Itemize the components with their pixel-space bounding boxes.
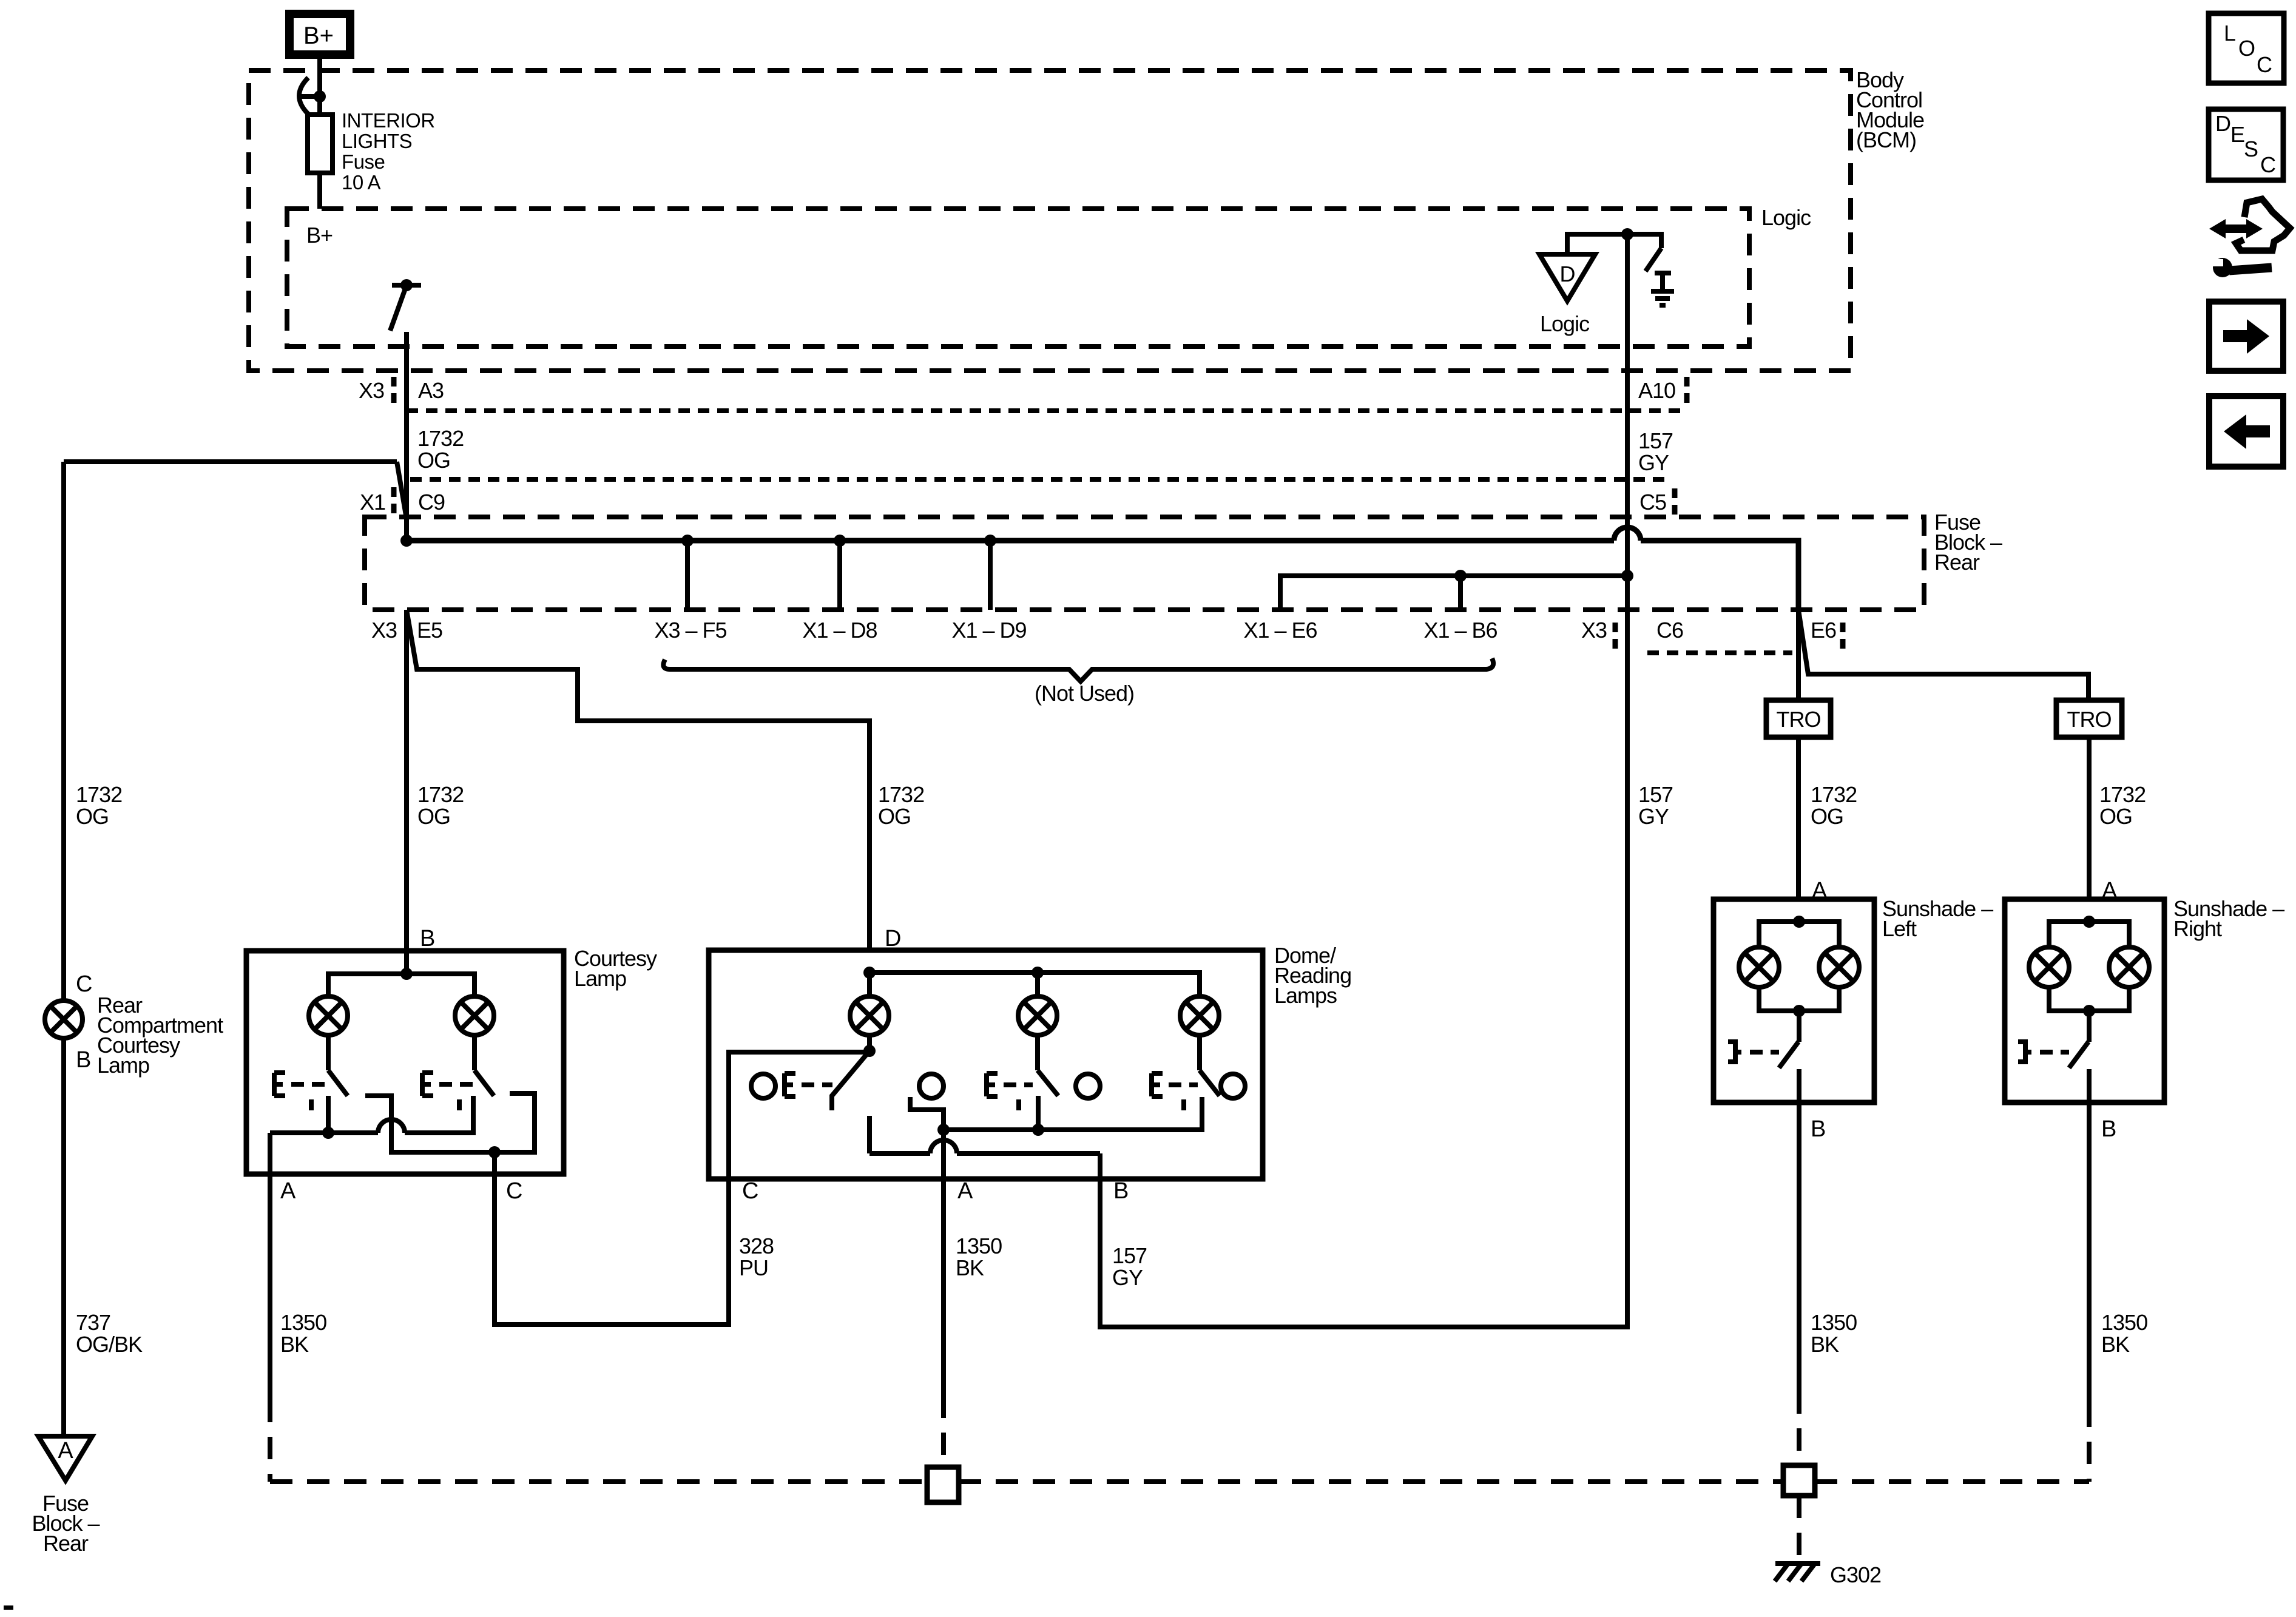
BCM outer dashed box: [249, 70, 1851, 371]
svg-text:C6: C6: [1656, 618, 1683, 643]
switch left: [326, 1035, 331, 1070]
svg-text:X3: X3: [371, 618, 397, 643]
connector labels below fuse block: [371, 618, 1843, 650]
dome lamp 2: [1018, 996, 1057, 1035]
connector X3 A3 labels: [359, 377, 444, 404]
svg-text:X1 – D8: X1 – D8: [802, 618, 877, 643]
wire branch E5 to dome lamps: [407, 610, 869, 951]
fuse clip holder: [299, 78, 326, 114]
icon DESC box: [2209, 109, 2283, 180]
dome pin A wire: [941, 1130, 946, 1396]
lamp left: [309, 996, 348, 1035]
wire label 157 GY: [1638, 428, 1673, 475]
svg-text:X1 – E6: X1 – E6: [1243, 618, 1317, 643]
wire label 1732 OG: [417, 426, 464, 473]
svg-text:B+: B+: [303, 22, 334, 49]
svg-text:TRO: TRO: [1777, 707, 1821, 732]
dome C rail: [867, 1035, 872, 1051]
svg-text:A: A: [58, 1438, 73, 1463]
icon component view with wrench: [2209, 199, 2290, 277]
svg-text:S: S: [2244, 137, 2258, 161]
svg-text:1732: 1732: [2099, 782, 2146, 807]
wire TRO right to sunshade: [2087, 737, 2092, 899]
BCM internal ground switch: [1627, 234, 1661, 271]
E symbol dome 3: [1152, 1073, 1198, 1110]
sunshade right lamp 1: [2029, 947, 2069, 987]
svg-text:TRO: TRO: [2067, 707, 2112, 732]
node logic junction: [1621, 228, 1633, 240]
dome switch 2: [1035, 1035, 1040, 1070]
E symbol left: [274, 1073, 326, 1110]
svg-text:Lamp: Lamp: [97, 1053, 149, 1078]
node bus junctions: [400, 535, 413, 547]
dashed stem to G302: [1797, 1496, 1801, 1561]
wire 737 OG/BK down: [61, 1038, 66, 1436]
icon arrow right box: [2209, 302, 2283, 371]
open circle 4: [1221, 1074, 1245, 1098]
svg-text:C: C: [2257, 52, 2272, 77]
COURTESY LAMP BOX: [246, 951, 564, 1174]
connector line below C6: [1647, 650, 1792, 655]
splice square left: [927, 1467, 959, 1502]
svg-text:1732: 1732: [417, 782, 464, 807]
connector C5 label: [1639, 488, 1675, 516]
svg-text:OG/BK: OG/BK: [76, 1332, 143, 1357]
sunshade left switch: [1797, 1011, 1801, 1042]
sunshade right lamp 2: [2109, 947, 2149, 987]
svg-text:OG: OG: [76, 804, 109, 829]
dome lamp 3: [1180, 996, 1219, 1035]
Fuse Block Rear label: [1934, 510, 2002, 575]
svg-text:1350: 1350: [1811, 1310, 1857, 1335]
svg-text:B: B: [1811, 1116, 1826, 1142]
svg-text:GY: GY: [1638, 450, 1669, 475]
sunshade left lamp bars: [1759, 922, 1839, 947]
svg-text:B: B: [1113, 1178, 1129, 1204]
svg-text:X3: X3: [1581, 618, 1607, 643]
svg-text:X1 – D9: X1 – D9: [951, 618, 1026, 643]
svg-text:OG: OG: [2099, 804, 2132, 829]
wire 1350 BK sunshade left: [1797, 1391, 1801, 1465]
dome switch 1 contact: [867, 1116, 872, 1153]
svg-text:C: C: [742, 1178, 758, 1204]
svg-text:BK: BK: [1811, 1332, 1839, 1357]
svg-text:PU: PU: [739, 1255, 768, 1280]
rear compartment courtesy lamp: [45, 1001, 83, 1038]
sunshade left actuator bracket: [1728, 1042, 1779, 1062]
wire to rear compartment lamp: [397, 462, 407, 519]
fuse F1 INTERIOR LIGHTS 10A: [308, 115, 333, 173]
fuse block rear triangle connector A: [38, 1436, 92, 1480]
node B junction: [400, 968, 413, 980]
svg-text:X3: X3: [359, 378, 384, 403]
dome switch 3: [1197, 1035, 1202, 1070]
wire B+ to fuse: [317, 59, 322, 115]
switch right: [472, 1035, 477, 1070]
connector line below A3/A10: [407, 408, 1685, 413]
svg-text:E5: E5: [417, 618, 442, 643]
svg-text:A: A: [2102, 878, 2118, 903]
TRO connector left: [1766, 700, 1831, 737]
svg-text:GY: GY: [1112, 1265, 1143, 1290]
svg-text:1732: 1732: [878, 782, 924, 807]
svg-text:E6: E6: [1811, 618, 1836, 643]
SUNSHADE RIGHT BOX: [2005, 899, 2164, 1102]
wire 328 PU courtesy C to dome C: [495, 1052, 869, 1325]
svg-text:B: B: [420, 926, 435, 951]
svg-text:X3 – F5: X3 – F5: [654, 618, 726, 643]
svg-text:C: C: [506, 1178, 522, 1204]
svg-text:Right: Right: [2173, 916, 2222, 941]
svg-text:10 A: 10 A: [342, 171, 381, 194]
svg-text:157: 157: [1638, 428, 1673, 453]
svg-text:157: 157: [1112, 1243, 1147, 1268]
wire 1350 BK sunshade right: [2087, 1405, 2092, 1482]
svg-text:D: D: [885, 926, 901, 951]
C contact path: [365, 1093, 535, 1152]
brace (Not Used): [663, 658, 1493, 706]
stub X1-D8: [837, 541, 842, 610]
svg-text:A3: A3: [418, 378, 444, 403]
dome switch 1 blade: [832, 1051, 869, 1110]
bus wire inside fuse block: [407, 538, 1614, 544]
open circle 3: [1076, 1074, 1100, 1098]
svg-text:(Not Used): (Not Used): [1035, 681, 1134, 706]
connector line above C9/C5: [410, 477, 1672, 482]
wire labels column: [76, 782, 122, 829]
svg-text:D: D: [1560, 262, 1575, 286]
top rail: [328, 974, 474, 997]
svg-text:Left: Left: [1882, 916, 1917, 941]
dome top rail: [863, 967, 876, 979]
svg-text:C5: C5: [1639, 490, 1666, 515]
svg-text:E: E: [2230, 122, 2244, 147]
BCM interior lamp driver switch: [390, 279, 421, 331]
svg-text:328: 328: [739, 1234, 774, 1258]
svg-text:A10: A10: [1638, 378, 1675, 403]
svg-text:B+: B+: [306, 223, 333, 248]
svg-text:L: L: [2224, 21, 2235, 46]
svg-text:C9: C9: [418, 490, 445, 515]
wire 1732 OG from BCM A3 to bus: [404, 332, 409, 541]
BCM label: [1856, 67, 1924, 152]
E symbol dome 1: [785, 1073, 832, 1096]
svg-text:X1 – B6: X1 – B6: [1423, 618, 1497, 643]
wire 1350 BK courtesy A to ground: [268, 1133, 272, 1400]
svg-text:C: C: [2260, 152, 2275, 177]
E symbol right: [422, 1073, 473, 1110]
svg-text:1350: 1350: [2101, 1310, 2147, 1335]
open circle 2: [919, 1074, 944, 1098]
ground symbol inside BCM: [1651, 273, 1674, 305]
svg-text:Lamps: Lamps: [1274, 983, 1337, 1008]
svg-text:1350: 1350: [956, 1234, 1002, 1258]
svg-text:OG: OG: [878, 804, 911, 829]
SUNSHADE LEFT BOX: [1714, 899, 1874, 1102]
sunshade left lamp 2: [1819, 947, 1859, 987]
wire TRO left to sunshade: [1796, 737, 1801, 899]
svg-text:Rear: Rear: [43, 1531, 89, 1556]
B+ terminal box: [289, 14, 350, 55]
open circle 1: [751, 1074, 775, 1098]
icon arrow left box: [2209, 396, 2283, 467]
wire 1732 OG E5 to courtesy lamp: [404, 610, 409, 974]
svg-text:A: A: [280, 1178, 296, 1204]
sunshade left lamp 1: [1739, 947, 1779, 987]
svg-text:BK: BK: [956, 1255, 984, 1280]
dome A rail: [944, 1097, 1202, 1130]
svg-text:GY: GY: [1638, 804, 1669, 829]
wire fuse to logic box: [317, 173, 322, 209]
svg-text:B: B: [76, 1047, 91, 1073]
ground distribution dashed wire: [270, 1479, 927, 1484]
TRO connector right: [2056, 700, 2122, 737]
svg-text:1732: 1732: [1811, 782, 1857, 807]
svg-text:Rear: Rear: [1934, 550, 1980, 575]
wire E6 to sunshade left TRO: [1796, 610, 1801, 700]
stray mark: [4, 1605, 13, 1610]
connector A10 label: [1638, 377, 1687, 404]
svg-text:Lamp: Lamp: [574, 966, 626, 991]
hook contact: [910, 1097, 944, 1130]
svg-text:X1: X1: [360, 490, 385, 515]
svg-text:OG: OG: [417, 804, 450, 829]
sunshade right actuator bracket: [2018, 1042, 2069, 1062]
dome B rail with hop: [869, 1151, 930, 1156]
svg-text:(BCM): (BCM): [1856, 127, 1916, 152]
svg-text:1732: 1732: [76, 782, 122, 807]
stub X3-F5: [685, 541, 690, 610]
sunshade right switch: [2087, 1011, 2092, 1042]
svg-text:LIGHTS: LIGHTS: [342, 130, 412, 152]
svg-text:Logic: Logic: [1540, 311, 1590, 336]
svg-text:INTERIOR: INTERIOR: [342, 109, 435, 132]
svg-text:BK: BK: [2101, 1332, 2130, 1357]
stub X1-D9: [988, 541, 993, 610]
svg-text:B: B: [2101, 1116, 2116, 1142]
lamp right: [455, 996, 494, 1035]
wire E6 branch to sunshade right TRO: [1798, 610, 2088, 700]
svg-text:G302: G302: [1830, 1562, 1881, 1587]
ground G302: [1775, 1562, 1881, 1587]
sunshade right lamp bars: [2049, 922, 2129, 947]
splice square right: [1783, 1465, 1815, 1496]
svg-text:737: 737: [76, 1310, 110, 1335]
svg-text:O: O: [2238, 36, 2255, 61]
DOME/READING LAMPS BOX: [709, 950, 1263, 1179]
svg-text:OG: OG: [1811, 804, 1843, 829]
svg-text:157: 157: [1638, 782, 1673, 807]
svg-text:Fuse: Fuse: [342, 150, 385, 173]
svg-text:A: A: [957, 1178, 973, 1204]
svg-text:1732: 1732: [417, 426, 464, 451]
E symbol dome 2: [987, 1073, 1033, 1110]
svg-text:1350: 1350: [280, 1310, 326, 1335]
svg-text:OG: OG: [417, 448, 450, 473]
svg-text:D: D: [2215, 111, 2230, 136]
wire 157 GY from BCM A10 down to dome lamp B: [1100, 234, 1627, 1327]
icon LOC box: [2209, 13, 2284, 83]
op-amp logic driver D: [1539, 234, 1627, 336]
connector X1 C9 labels: [360, 487, 445, 515]
BCM Logic inner dashed box: [287, 209, 1749, 346]
svg-text:C: C: [76, 971, 92, 997]
Fuse Block Rear dashed box: [365, 517, 1924, 610]
svg-text:A: A: [1812, 878, 1828, 903]
rail A with hop: [270, 1130, 378, 1135]
svg-text:BK: BK: [280, 1332, 309, 1357]
svg-text:Logic: Logic: [1761, 205, 1811, 230]
lower bus X1-E6 / X1-B6: [1280, 576, 1627, 610]
dome lamp 1: [850, 996, 889, 1035]
